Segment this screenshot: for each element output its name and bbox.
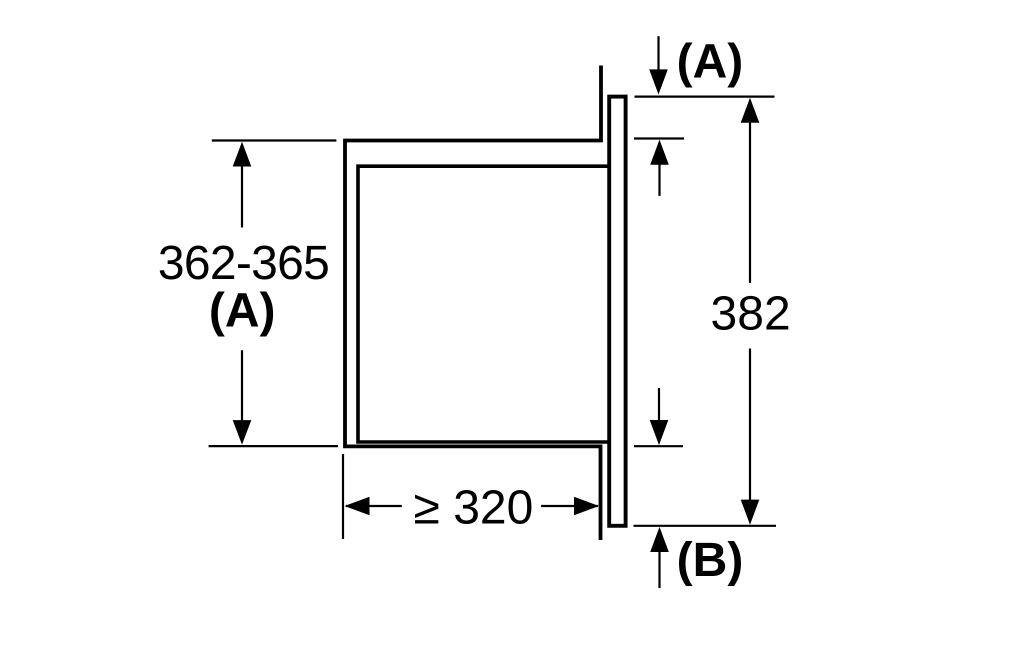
extension line right (frame bottom) [634, 525, 777, 527]
dimension 382 upper shaft [749, 120, 751, 283]
dimension >=320 left shaft [346, 505, 402, 507]
svg-text:(A): (A) [677, 36, 744, 89]
extension line top-left (niche top) [212, 139, 337, 141]
extension line bottom-left (niche bottom) [209, 445, 339, 447]
extension line right (niche top) [634, 137, 684, 139]
svg-text:(B): (B) [677, 534, 744, 587]
dimension 382 lower shaft [749, 349, 751, 506]
dimension 382 upper arrowhead [741, 98, 760, 123]
svg-text:≥ 320: ≥ 320 [414, 482, 534, 535]
top overlap up arrow shaft [658, 160, 660, 196]
dimension 362-365 lower arrowhead [233, 420, 252, 445]
svg-text:(A): (A) [209, 285, 276, 338]
bottom overlap up arrowhead [650, 527, 669, 552]
top overlap up arrowhead [650, 140, 669, 165]
dimension 362-365 upper arrowhead [233, 142, 252, 167]
dimension >=320 right shaft [541, 505, 598, 507]
top overlap down arrow shaft [657, 36, 659, 73]
bottom overlap up arrow shaft [658, 548, 660, 588]
appliance front frame [609, 97, 625, 526]
dimension >=320 right arrowhead [574, 497, 599, 516]
appliance body outline [358, 166, 611, 442]
bottom overlap down arrow shaft [658, 388, 660, 425]
dimension 362-365 lower shaft [241, 350, 243, 430]
svg-text:382: 382 [711, 287, 791, 340]
bottom overlap down arrowhead [650, 420, 669, 445]
dimension 382 lower arrowhead [741, 500, 760, 525]
svg-text:362-365: 362-365 [158, 237, 329, 290]
dimension >=320 left arrowhead [345, 497, 370, 516]
cabinet niche profile [345, 66, 601, 541]
extension line right (niche bottom) [634, 445, 683, 447]
dimension 362-365 upper shaft [241, 160, 243, 228]
extension line left vertical (niche depth rear) [342, 454, 344, 539]
extension line right (frame top) [635, 95, 775, 97]
top overlap down arrowhead [649, 69, 668, 94]
